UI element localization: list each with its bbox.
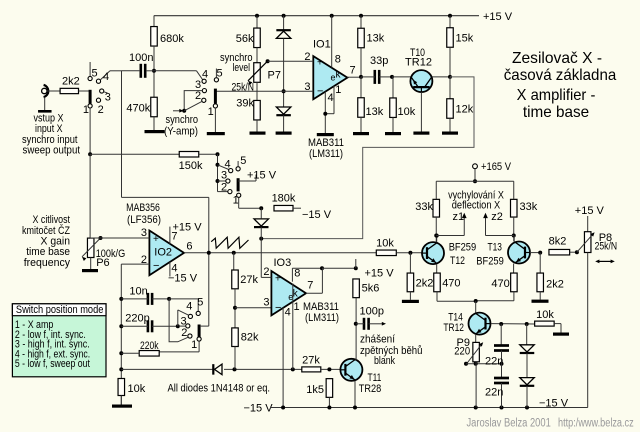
svg-text:7: 7 <box>307 280 313 292</box>
svg-text:deflection X: deflection X <box>452 200 501 212</box>
svg-text:Switch position mode: Switch position mode <box>16 304 104 316</box>
svg-text:P7: P7 <box>268 70 281 82</box>
svg-text:100p: 100p <box>360 305 384 317</box>
svg-text:2: 2 <box>98 104 104 116</box>
svg-text:synchro: synchro <box>166 114 199 126</box>
svg-text:−: − <box>275 302 281 314</box>
svg-text:1: 1 <box>233 195 239 207</box>
svg-text:P6: P6 <box>96 257 109 269</box>
svg-text:7: 7 <box>171 230 177 242</box>
svg-text:(LM311): (LM311) <box>309 148 343 160</box>
svg-text:4: 4 <box>328 92 334 104</box>
svg-text:TR28: TR28 <box>359 383 382 395</box>
svg-text:27k: 27k <box>240 274 258 286</box>
svg-text:IO2: IO2 <box>154 247 172 259</box>
svg-text:680k: 680k <box>160 33 184 45</box>
svg-text:5: 5 <box>197 297 203 309</box>
svg-text:22n: 22n <box>485 356 503 368</box>
svg-text:2k2: 2k2 <box>62 75 80 87</box>
svg-text:1k5: 1k5 <box>306 384 324 396</box>
svg-text:10n: 10n <box>129 285 147 297</box>
svg-text:5 - low f, sweep out: 5 - low f, sweep out <box>15 358 90 370</box>
svg-text:27k: 27k <box>302 355 320 367</box>
svg-text:2: 2 <box>195 90 201 102</box>
svg-text:TR12: TR12 <box>405 57 432 69</box>
svg-text:6: 6 <box>186 241 192 253</box>
svg-text:zhášení: zhášení <box>360 334 395 346</box>
svg-text:1: 1 <box>83 104 89 116</box>
svg-text:http:/www.belza.cz: http:/www.belza.cz <box>558 418 634 430</box>
svg-text:−: − <box>153 260 159 272</box>
svg-text:1: 1 <box>294 301 300 313</box>
svg-text:10k: 10k <box>128 383 146 395</box>
svg-text:10k: 10k <box>398 106 416 118</box>
svg-text:7: 7 <box>350 65 356 77</box>
svg-text:časová základna: časová základna <box>504 67 617 84</box>
svg-text:+15 V: +15 V <box>247 170 277 182</box>
svg-text:time base: time base <box>523 104 589 121</box>
svg-text:3: 3 <box>105 91 111 103</box>
svg-text:+15 V: +15 V <box>575 205 605 217</box>
svg-text:IO1: IO1 <box>313 39 331 51</box>
svg-text:2k2: 2k2 <box>416 278 434 290</box>
svg-text:2k2: 2k2 <box>546 279 564 291</box>
svg-text:15k: 15k <box>456 33 474 45</box>
svg-text:(LF356): (LF356) <box>127 214 161 226</box>
svg-text:3: 3 <box>141 227 147 239</box>
svg-text:z2: z2 <box>491 211 503 223</box>
svg-text:TR12: TR12 <box>443 322 464 334</box>
svg-text:3: 3 <box>221 170 227 182</box>
svg-text:5: 5 <box>217 68 223 80</box>
svg-text:−15 V: −15 V <box>302 209 332 221</box>
svg-text:Jaroslav Belza 2001: Jaroslav Belza 2001 <box>467 418 551 430</box>
svg-text:−15 V: −15 V <box>539 397 569 409</box>
svg-text:220k: 220k <box>140 340 159 352</box>
svg-text:All diodes 1N4148 or eq.: All diodes 1N4148 or eq. <box>168 383 271 395</box>
svg-text:33k: 33k <box>520 201 538 213</box>
svg-text:4: 4 <box>186 301 192 313</box>
svg-text:5: 5 <box>92 68 98 80</box>
svg-text:+165 V: +165 V <box>481 161 512 173</box>
svg-text:4: 4 <box>202 68 208 80</box>
svg-text:1: 1 <box>335 84 341 96</box>
svg-text:470: 470 <box>491 278 509 290</box>
svg-text:T12: T12 <box>450 255 465 267</box>
svg-text:+: + <box>275 274 281 285</box>
svg-text:2: 2 <box>221 181 227 193</box>
svg-text:2: 2 <box>304 51 310 63</box>
svg-text:10k: 10k <box>376 237 394 249</box>
svg-text:4: 4 <box>285 307 291 319</box>
svg-text:220: 220 <box>454 346 470 358</box>
svg-text:5k6: 5k6 <box>362 283 380 295</box>
svg-text:IO3: IO3 <box>274 257 292 269</box>
svg-text:10k: 10k <box>536 309 554 321</box>
svg-text:33k: 33k <box>415 201 433 213</box>
svg-text:13k: 13k <box>367 33 385 45</box>
svg-text:8: 8 <box>294 268 300 280</box>
svg-text:470: 470 <box>442 278 460 290</box>
svg-text:sweep output: sweep output <box>23 145 81 157</box>
svg-text:150k: 150k <box>179 160 203 172</box>
svg-text:8k2: 8k2 <box>549 236 567 248</box>
svg-text:BF259: BF259 <box>476 256 504 268</box>
svg-text:+: + <box>317 58 323 69</box>
svg-text:(LM311): (LM311) <box>305 312 339 324</box>
svg-text:33p: 33p <box>370 55 388 67</box>
svg-text:−15 V: −15 V <box>244 402 274 414</box>
svg-text:3: 3 <box>195 79 201 91</box>
svg-text:z1: z1 <box>453 211 465 223</box>
svg-text:MAB356: MAB356 <box>126 202 160 214</box>
svg-text:Zesilovač X -: Zesilovač X - <box>512 50 602 67</box>
svg-text:3: 3 <box>304 81 310 93</box>
svg-text:12k: 12k <box>456 104 474 116</box>
svg-text:T13: T13 <box>488 242 502 254</box>
svg-text:blank: blank <box>374 355 395 367</box>
svg-text:180k: 180k <box>272 193 296 205</box>
svg-text:220p: 220p <box>125 313 149 325</box>
svg-text:+15 V: +15 V <box>483 11 513 23</box>
svg-text:−15 V: −15 V <box>168 273 198 285</box>
svg-text:39k: 39k <box>236 97 254 109</box>
svg-text:1: 1 <box>191 339 197 351</box>
svg-text:+: + <box>153 234 159 245</box>
svg-text:X amplifier -: X amplifier - <box>517 87 596 104</box>
svg-text:25k/N: 25k/N <box>595 240 618 252</box>
svg-text:1: 1 <box>208 106 214 118</box>
svg-text:+15 V: +15 V <box>365 268 395 280</box>
svg-text:8: 8 <box>335 54 341 66</box>
svg-text:3: 3 <box>263 297 269 309</box>
svg-text:−: − <box>317 86 323 98</box>
svg-text:frequency: frequency <box>24 257 71 269</box>
svg-text:13k: 13k <box>366 106 384 118</box>
svg-text:4: 4 <box>103 71 109 83</box>
svg-text:22n: 22n <box>485 387 503 399</box>
svg-text:5: 5 <box>240 155 246 167</box>
svg-text:2: 2 <box>181 327 187 339</box>
svg-text:BF259: BF259 <box>449 242 477 254</box>
svg-text:56k: 56k <box>236 33 254 45</box>
svg-text:470k: 470k <box>126 103 150 115</box>
svg-text:100n: 100n <box>129 52 153 64</box>
svg-text:82k: 82k <box>241 332 259 344</box>
svg-text:3: 3 <box>181 315 187 327</box>
svg-text:level: level <box>233 62 251 74</box>
svg-text:2: 2 <box>263 266 269 278</box>
svg-text:(Y-amp): (Y-amp) <box>164 126 198 138</box>
